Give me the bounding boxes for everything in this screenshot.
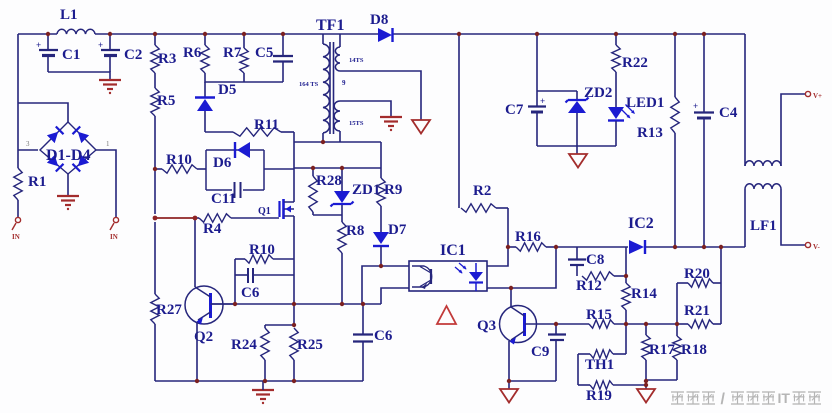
resistor R8	[338, 215, 365, 303]
wire R28-ZD1 link	[313, 214, 342, 216]
wire R6-C5 link	[205, 73, 283, 82]
resistor R1	[14, 168, 47, 200]
transistor Q1 (MOSFET)	[258, 199, 294, 219]
input terminal N	[110, 217, 119, 241]
wire bridge left lead	[18, 149, 38, 151]
ground below C2	[99, 80, 121, 94]
resistor R3	[151, 34, 177, 73]
resistor R22	[612, 34, 648, 72]
svg-text:C9: C9	[531, 344, 549, 360]
wire left input vertical	[17, 34, 19, 168]
svg-text:14TS: 14TS	[349, 57, 364, 64]
svg-text:LED1: LED1	[626, 95, 664, 111]
input terminal L	[12, 217, 21, 241]
resistor R9	[377, 142, 403, 206]
wire bottom rail	[155, 380, 363, 382]
wire R2 feed	[458, 34, 460, 208]
wire R1 to input terminal	[17, 200, 19, 217]
resistor R28	[309, 168, 342, 215]
wire ZD2 ground stub	[576, 146, 578, 154]
wire top rail right	[393, 33, 745, 35]
wire secondary bottom tap	[340, 101, 391, 117]
thermistor TH1	[578, 324, 626, 373]
wire gate drive (red)	[155, 217, 195, 219]
svg-text:+: +	[540, 96, 545, 106]
svg-text:V+: V+	[813, 92, 822, 100]
svg-text:164 TS: 164 TS	[299, 81, 319, 88]
wire drain vertical	[293, 132, 295, 202]
resistor R20	[677, 266, 721, 324]
wire top rail left	[18, 33, 57, 35]
output terminal V+	[805, 91, 822, 100]
resistor R14	[622, 247, 658, 324]
svg-text:R3: R3	[158, 51, 176, 67]
resistor R11	[205, 117, 294, 136]
svg-text:R6: R6	[183, 45, 202, 61]
capacitor C11	[211, 182, 241, 207]
resistor R15	[586, 307, 677, 328]
inductor LF1 winding B	[745, 184, 781, 189]
wire R27 to bottom rail	[154, 324, 156, 381]
svg-text:R27: R27	[156, 302, 182, 318]
svg-text:LF1: LF1	[750, 218, 777, 234]
wire Q3 base bus	[525, 323, 589, 325]
resistor R19	[578, 354, 646, 404]
photoresistor R13	[637, 34, 679, 247]
svg-text:15TS: 15TS	[349, 120, 364, 127]
svg-text:R14: R14	[631, 286, 657, 302]
svg-text:C11: C11	[211, 191, 236, 207]
diode D5	[195, 82, 236, 132]
zener ZD1	[331, 168, 381, 215]
test point triangle	[437, 306, 456, 324]
svg-text:R20: R20	[684, 266, 710, 282]
wire secondary top to ground	[340, 71, 421, 120]
svg-text:R22: R22	[622, 55, 648, 71]
resistor R2	[461, 183, 508, 246]
optocoupler IC1 phototransistor	[412, 266, 432, 289]
svg-text:D6: D6	[213, 155, 232, 171]
svg-text:R10: R10	[166, 152, 192, 168]
capacitor C4	[693, 34, 738, 247]
svg-text:R25: R25	[297, 337, 323, 353]
wire Q3 collector	[510, 288, 512, 307]
svg-text:Q3: Q3	[477, 318, 496, 334]
wire LF1 B left	[744, 189, 746, 247]
resistor R18	[646, 324, 707, 380]
svg-text:R5: R5	[157, 93, 175, 109]
svg-text:R18: R18	[681, 342, 707, 358]
optocoupler IC1 led	[455, 263, 483, 291]
capacitor C6 (feedback)	[235, 268, 294, 301]
wire Q3 emitter	[508, 341, 510, 389]
svg-text:D1-D4: D1-D4	[46, 147, 90, 164]
svg-text:IC1: IC1	[440, 242, 466, 259]
svg-text:IC2: IC2	[628, 215, 654, 232]
svg-text:Q1: Q1	[258, 206, 271, 217]
resistor R10 (snubber)	[155, 152, 206, 173]
wire R27 column	[154, 222, 156, 294]
diode D7	[373, 206, 407, 266]
svg-text:L1: L1	[60, 7, 78, 23]
svg-text:C6: C6	[374, 328, 393, 344]
svg-text:D5: D5	[218, 82, 236, 98]
capacitor C9	[531, 324, 566, 381]
capacitor C7	[505, 91, 546, 146]
diode D6	[213, 142, 250, 171]
zener ZD2	[566, 85, 613, 146]
ground below bridge	[57, 196, 79, 210]
transformer TF1 primary	[299, 17, 344, 142]
wire top rail middle	[95, 33, 378, 35]
ground triangle below ZD2	[569, 154, 587, 168]
resistor R12	[576, 272, 626, 294]
ground triangle below TF1	[412, 120, 430, 134]
svg-text:+: +	[36, 40, 41, 50]
svg-text:R21: R21	[684, 303, 710, 319]
svg-text:R13: R13	[637, 125, 663, 141]
wire C9 ground link	[509, 380, 556, 382]
svg-text:+: +	[693, 101, 698, 111]
svg-text:IN: IN	[12, 233, 20, 241]
resistor R10 (feedback)	[235, 242, 294, 263]
wire C7 feed	[536, 34, 538, 91]
svg-text:R4: R4	[203, 221, 222, 237]
svg-text:9: 9	[342, 79, 346, 87]
capacitor C6 (ramp)	[353, 304, 393, 381]
diode D8	[370, 12, 393, 42]
transistor Q3	[477, 306, 537, 345]
svg-text:R7: R7	[223, 45, 242, 61]
wire ZD2 bottom rail	[537, 145, 616, 147]
svg-text:+: +	[98, 40, 103, 50]
svg-text:C6: C6	[241, 285, 260, 301]
wire R24/R25 top bar	[265, 324, 294, 326]
wire LF1 B to V-	[781, 189, 805, 245]
svg-text:D8: D8	[370, 12, 388, 28]
resistor R21	[677, 247, 721, 328]
wire clamp line B	[294, 167, 381, 169]
svg-text:IN: IN	[110, 233, 118, 241]
svg-text:ZD1: ZD1	[352, 182, 380, 198]
transistor Q2	[185, 286, 235, 345]
wire C1-C2 bottom link	[48, 72, 110, 80]
svg-text:D7: D7	[388, 222, 407, 238]
wire IC1 pin3 lead	[487, 247, 556, 288]
wire sense rail right	[645, 246, 745, 248]
resistor R7	[223, 34, 248, 82]
svg-text:R8: R8	[346, 223, 364, 239]
svg-text:R24: R24	[231, 337, 257, 353]
svg-text:R15: R15	[586, 307, 612, 323]
svg-text:C8: C8	[586, 252, 604, 268]
capacitor C8	[568, 247, 604, 276]
wire LF1 feed	[744, 34, 746, 166]
ground triangle below Q3	[500, 389, 518, 403]
capacitor C1	[36, 34, 80, 72]
svg-text:R10: R10	[249, 242, 275, 258]
svg-text:IT: IT	[778, 390, 791, 406]
resistor R6	[183, 34, 209, 73]
wire vcc sense rail	[556, 246, 628, 248]
resistor R25	[290, 328, 323, 381]
svg-text:1: 1	[106, 140, 110, 148]
svg-text:R11: R11	[254, 117, 279, 133]
svg-text:R2: R2	[473, 183, 491, 199]
svg-text:TF1: TF1	[316, 17, 344, 34]
wire bridge top feed	[18, 103, 68, 122]
wire bridge right lead	[96, 150, 116, 217]
wire IC1 pin4 lead	[487, 246, 508, 266]
capacitor C2	[98, 34, 142, 72]
wire feedback box left	[234, 259, 236, 304]
svg-text:3: 3	[26, 140, 30, 148]
svg-text:R16: R16	[515, 229, 541, 245]
inductor L1	[57, 7, 95, 34]
wire C7-ZD2 top link	[537, 90, 577, 92]
wire feedback bus	[211, 303, 381, 305]
resistor R5	[151, 73, 176, 116]
transformer TF1 secondary top	[335, 34, 363, 87]
bridge rectifier D1-D4	[26, 122, 110, 174]
wire D6 box to drain	[264, 168, 294, 170]
resistor R24	[231, 325, 269, 381]
resistor R4	[195, 214, 279, 237]
svg-text:R17: R17	[649, 342, 675, 358]
svg-text:R9: R9	[384, 182, 402, 198]
snubber box D6/C11 outline	[206, 150, 264, 190]
capacitor C5	[255, 34, 293, 82]
ground triangle below R17	[637, 389, 655, 403]
wire ground stub	[262, 381, 264, 390]
resistor R17	[642, 324, 676, 389]
wire Q1 source vertical	[293, 216, 295, 325]
svg-text:C4: C4	[719, 105, 738, 121]
optocoupler IC1 box	[409, 242, 487, 291]
svg-text:R12: R12	[576, 278, 602, 294]
svg-text:R1: R1	[28, 174, 46, 190]
svg-text:V-: V-	[813, 243, 821, 251]
watermark	[671, 390, 821, 408]
svg-text:TH1: TH1	[585, 357, 614, 373]
resistor R16	[508, 229, 556, 251]
output terminal V-	[805, 242, 820, 251]
wire LF1 A to V+	[781, 94, 805, 166]
ground below R24	[252, 390, 274, 404]
svg-text:C2: C2	[124, 47, 142, 63]
led LED1	[608, 72, 664, 146]
wire Q2 emitter	[196, 322, 198, 381]
transformer TF1 core	[330, 42, 334, 134]
resistor R27	[151, 294, 183, 324]
wire Q2 collector	[194, 218, 196, 287]
wire IC1 pin2 lead	[381, 288, 409, 304]
svg-text:ZD2: ZD2	[584, 85, 612, 101]
svg-text:R28: R28	[316, 173, 342, 189]
svg-text:R19: R19	[586, 388, 612, 404]
ground bars below TF1	[380, 117, 402, 131]
wire clamp line A	[294, 141, 381, 143]
wire bridge bottom	[67, 174, 69, 196]
svg-text:C5: C5	[255, 45, 273, 61]
svg-text:C1: C1	[62, 47, 80, 63]
transformer TF1 secondary bottom	[334, 101, 364, 142]
svg-text:/: /	[721, 391, 726, 408]
shunt regulator IC2	[628, 215, 654, 254]
wire R5 down	[154, 116, 156, 214]
svg-text:C7: C7	[505, 102, 524, 118]
inductor LF1 winding A	[745, 161, 781, 234]
wire IC1 pin1 lead	[362, 266, 409, 304]
